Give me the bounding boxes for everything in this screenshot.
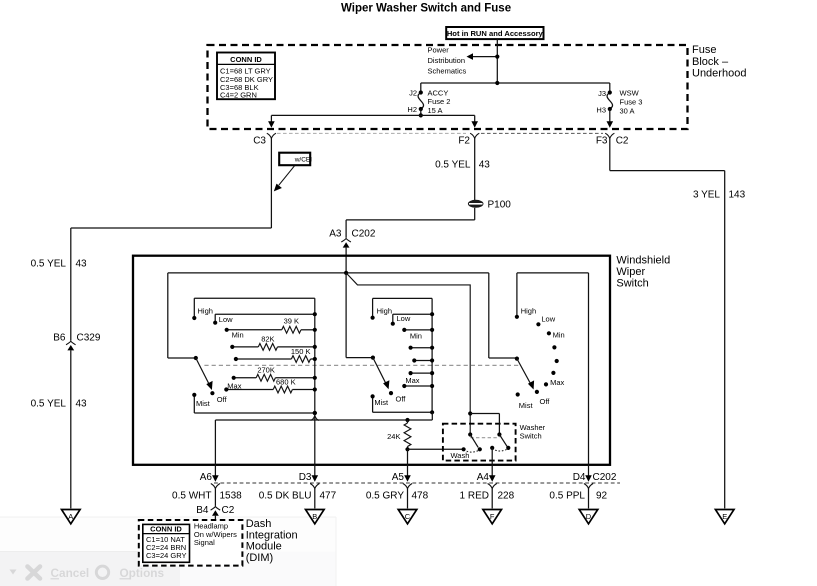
svg-text:C2: C2 (222, 505, 235, 516)
svg-text:Options: Options (120, 566, 165, 580)
svg-text:WSW: WSW (620, 89, 640, 98)
svg-text:Wash: Wash (451, 451, 470, 460)
svg-text:Mist: Mist (519, 401, 534, 410)
svg-text:0.5 DK BLU: 0.5 DK BLU (259, 491, 312, 502)
svg-text:680 K: 680 K (276, 377, 296, 386)
svg-text:P100: P100 (488, 200, 512, 211)
svg-text:15 A: 15 A (428, 106, 443, 115)
svg-text:Power: Power (428, 46, 450, 55)
svg-text:A4: A4 (477, 472, 490, 483)
svg-text:0.5 GRY: 0.5 GRY (366, 491, 404, 502)
svg-text:Off: Off (217, 395, 228, 404)
svg-text:150 K: 150 K (291, 347, 311, 356)
svg-text:Wiper: Wiper (616, 266, 645, 278)
svg-text:43: 43 (76, 398, 88, 409)
svg-text:C329: C329 (77, 332, 101, 343)
svg-text:C3: C3 (253, 135, 266, 146)
svg-text:H3: H3 (596, 106, 606, 115)
svg-text:92: 92 (596, 491, 608, 502)
svg-text:Mist: Mist (196, 399, 211, 408)
svg-text:C3=24 GRY: C3=24 GRY (146, 551, 187, 560)
svg-text:270K: 270K (257, 366, 275, 375)
svg-text:3 YEL: 3 YEL (693, 190, 720, 201)
svg-text:ACCY: ACCY (428, 88, 449, 97)
svg-text:CONN ID: CONN ID (150, 525, 182, 534)
svg-text:Low: Low (541, 315, 555, 324)
svg-text:B4: B4 (196, 505, 209, 516)
svg-text:D4: D4 (573, 472, 586, 483)
svg-text:Max: Max (227, 382, 241, 391)
svg-text:C4=2 GRN: C4=2 GRN (220, 91, 257, 100)
svg-text:A6: A6 (200, 472, 213, 483)
svg-text:C202: C202 (352, 229, 376, 240)
svg-text:0.5 YEL: 0.5 YEL (31, 259, 67, 270)
svg-text:477: 477 (320, 491, 337, 502)
svg-text:Switch: Switch (616, 278, 648, 290)
svg-text:Distribution: Distribution (428, 56, 466, 65)
svg-text:43: 43 (76, 259, 88, 270)
svg-text:Min: Min (553, 331, 565, 340)
svg-text:0.5 WHT: 0.5 WHT (172, 491, 211, 502)
svg-text:228: 228 (498, 491, 515, 502)
svg-text:D: D (586, 512, 592, 521)
svg-text:Max: Max (405, 376, 419, 385)
svg-text:(DIM): (DIM) (246, 552, 274, 564)
svg-text:B6: B6 (53, 332, 66, 343)
svg-text:1 RED: 1 RED (460, 491, 489, 502)
svg-text:F: F (490, 512, 495, 521)
svg-text:82K: 82K (261, 334, 274, 343)
svg-text:Block –: Block – (692, 56, 729, 68)
svg-text:Schematics: Schematics (428, 67, 467, 76)
svg-text:F2: F2 (458, 136, 470, 147)
svg-text:J3: J3 (598, 89, 606, 98)
svg-text:D3: D3 (299, 472, 312, 483)
svg-text:Min: Min (410, 331, 422, 340)
svg-text:F3: F3 (596, 136, 608, 147)
svg-text:C2: C2 (616, 136, 629, 147)
svg-text:143: 143 (729, 190, 746, 201)
svg-text:Signal: Signal (194, 538, 215, 547)
svg-text:30 A: 30 A (620, 107, 635, 116)
svg-text:0.5 YEL: 0.5 YEL (435, 159, 471, 170)
svg-text:Low: Low (219, 315, 233, 324)
svg-text:A5: A5 (392, 472, 405, 483)
svg-text:C202: C202 (593, 472, 617, 483)
svg-text:C: C (405, 512, 411, 521)
svg-text:Off: Off (396, 395, 407, 404)
svg-text:0.5 PPL: 0.5 PPL (549, 491, 585, 502)
svg-text:Mist: Mist (374, 398, 389, 407)
svg-text:0.5 YEL: 0.5 YEL (31, 398, 67, 409)
svg-text:A: A (68, 512, 73, 521)
svg-text:Min: Min (232, 331, 244, 340)
svg-text:Fuse 3: Fuse 3 (620, 98, 643, 107)
svg-text:Integration: Integration (246, 529, 298, 541)
svg-text:B: B (312, 512, 317, 521)
svg-text:Max: Max (550, 378, 564, 387)
svg-text:Module: Module (246, 541, 282, 553)
svg-text:43: 43 (479, 159, 491, 170)
svg-text:J2: J2 (409, 88, 417, 97)
svg-text:Low: Low (397, 314, 411, 323)
svg-text:1538: 1538 (220, 491, 243, 502)
svg-text:39 K: 39 K (284, 317, 299, 326)
svg-text:24K: 24K (387, 432, 400, 441)
svg-text:w/CEI: w/CEI (294, 157, 313, 164)
svg-text:Fuse: Fuse (692, 44, 716, 56)
svg-text:Switch: Switch (520, 431, 542, 440)
svg-text:Wiper Washer Switch and Fuse: Wiper Washer Switch and Fuse (341, 2, 511, 14)
svg-text:Underhood: Underhood (692, 67, 746, 79)
svg-text:High: High (521, 306, 536, 315)
svg-text:E: E (722, 512, 727, 521)
svg-text:H2: H2 (407, 105, 417, 114)
svg-text:478: 478 (412, 491, 429, 502)
svg-text:CONN ID: CONN ID (230, 55, 262, 64)
svg-text:Off: Off (540, 397, 551, 406)
svg-text:Dash: Dash (246, 518, 272, 530)
svg-text:Hot in RUN and Accessory: Hot in RUN and Accessory (447, 29, 544, 38)
svg-text:High: High (377, 307, 392, 316)
svg-text:High: High (198, 307, 213, 316)
svg-text:A3: A3 (329, 229, 342, 240)
svg-text:Windshield: Windshield (616, 255, 670, 267)
svg-text:Cancel: Cancel (51, 566, 90, 580)
